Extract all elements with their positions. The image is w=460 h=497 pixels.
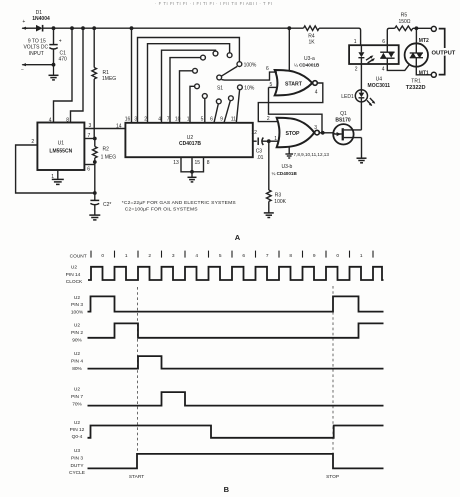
node START dashed line: [137, 287, 139, 453]
svg-text:9: 9: [313, 253, 316, 259]
output bracket: [431, 29, 456, 75]
ground (C2): [89, 215, 100, 220]
svg-text:12: 12: [251, 130, 257, 136]
op-amp U3-b NOR gate STOP: [277, 118, 320, 147]
svg-text:14: 14: [116, 123, 122, 129]
resistor R3: [266, 141, 286, 212]
wire S1 pivot to START gate pin 6: [222, 72, 278, 80]
LED1 emission arrows: [367, 98, 375, 106]
svg-text:6: 6: [87, 166, 90, 172]
wire TR1 gate to U4 pin 4: [387, 64, 410, 71]
svg-text:3: 3: [314, 125, 317, 131]
wire U2 pin14 clock waveform: [66, 265, 384, 286]
svg-text:U2: U2: [74, 295, 80, 301]
diode D1: [32, 10, 50, 31]
svg-text:100%: 100%: [244, 62, 257, 68]
output terminal top: [431, 26, 436, 31]
svg-text:4: 4: [382, 67, 385, 73]
svg-text:9: 9: [220, 117, 223, 123]
svg-text:R3: R3: [275, 192, 282, 198]
top supply rail: [43, 27, 304, 29]
svg-text:150Ω: 150Ω: [398, 19, 410, 25]
svg-text:1: 1: [125, 253, 128, 259]
svg-text:U3-b: U3-b: [282, 164, 293, 170]
svg-text:80%: 80%: [72, 366, 82, 372]
svg-text:0: 0: [336, 253, 339, 259]
svg-text:U3: U3: [74, 448, 80, 454]
svg-text:2: 2: [355, 67, 358, 73]
pin 3 wire to U2 pin 14: [84, 123, 125, 129]
svg-text:R1: R1: [103, 70, 110, 76]
wire U4 pin6 to R5: [387, 28, 395, 45]
svg-text:OUTPUT: OUTPUT: [432, 51, 456, 57]
svg-text:B: B: [224, 485, 230, 494]
op-amp U3-a NOR gate START: [275, 70, 318, 95]
svg-text:1: 1: [360, 253, 363, 259]
svg-text:2: 2: [148, 253, 151, 259]
IC U2 counter box: [125, 123, 252, 157]
svg-text:1N4004: 1N4004: [32, 16, 50, 22]
svg-text:STOP: STOP: [285, 131, 300, 137]
wire rail to U3-a top: [288, 28, 290, 70]
svg-text:4: 4: [195, 253, 198, 259]
svg-text:C2=100µF FOR OIL SYSTEMS: C2=100µF FOR OIL SYSTEMS: [125, 207, 198, 213]
switch S1 pivot and arm: [217, 66, 237, 91]
svg-text:VOLTS DC: VOLTS DC: [23, 45, 48, 51]
resistor R1: [92, 28, 116, 138]
rail after R4 to U4 pin 1: [319, 28, 361, 45]
svg-text:PIN 3: PIN 3: [71, 302, 83, 308]
ground (R3): [264, 213, 274, 218]
wire U2 pin4 80% waveform: [71, 351, 384, 372]
wire pin 16 to rail: [131, 28, 133, 123]
svg-text:8: 8: [66, 117, 69, 123]
plus input terminal: [22, 19, 28, 30]
svg-text:CD4017B: CD4017B: [179, 141, 201, 147]
svg-text:R4: R4: [308, 34, 315, 40]
wire + rail to diode: [22, 27, 36, 29]
wire U2 pin7 70% waveform: [71, 387, 384, 408]
svg-text:*C2=22µF FOR GAS AND ELECTRIC: *C2=22µF FOR GAS AND ELECTRIC SYSTEMS: [122, 200, 237, 206]
cross wire STOP output to START pin 5: [269, 87, 323, 132]
U3-a reference labels: [294, 56, 320, 68]
faint cropped header text: [155, 1, 273, 6]
wire pin 7 to 70% contact: [170, 58, 200, 123]
svg-text:U2: U2: [74, 420, 80, 426]
pin 1 wire + ground: [51, 170, 64, 184]
TR1 labels: [406, 71, 429, 91]
svg-text:U2: U2: [71, 265, 77, 271]
svg-text:7: 7: [88, 133, 91, 139]
svg-text:8: 8: [207, 160, 210, 166]
svg-text:MOC3011: MOC3011: [368, 83, 391, 89]
svg-text:7,8,9,10,11,12,13: 7,8,9,10,11,12,13: [294, 152, 330, 157]
minus input terminal: [21, 63, 55, 73]
svg-text:15: 15: [195, 160, 201, 166]
svg-text:0: 0: [101, 253, 104, 259]
svg-text:PIN 4: PIN 4: [71, 358, 83, 364]
svg-text:100%: 100%: [71, 310, 84, 316]
svg-text:U2: U2: [74, 351, 80, 357]
svg-text:1MEG: 1MEG: [102, 76, 116, 82]
svg-text:PIN 14: PIN 14: [66, 272, 81, 278]
svg-text:START: START: [285, 81, 303, 87]
wire U3 pin3 duty cycle waveform: [69, 448, 384, 476]
svg-text:5: 5: [270, 82, 273, 88]
U4 internal arrows: [366, 55, 375, 63]
pin 5 stub: [269, 82, 278, 88]
svg-text:U2: U2: [74, 387, 80, 393]
svg-text:PIN 12: PIN 12: [70, 427, 85, 433]
node STOP dashed line: [332, 286, 334, 453]
svg-text:4: 4: [49, 117, 52, 123]
svg-text:2: 2: [144, 117, 147, 123]
node C2 junction: [93, 191, 97, 195]
svg-text:6: 6: [382, 39, 385, 45]
svg-text:PIN 2: PIN 2: [71, 330, 83, 336]
svg-text:6: 6: [210, 117, 213, 123]
svg-text:6: 6: [242, 253, 245, 259]
svg-text:1 MEG: 1 MEG: [101, 155, 117, 161]
svg-text:U2: U2: [74, 323, 80, 329]
svg-text:R2: R2: [103, 146, 110, 152]
svg-text:¼ CD4001B: ¼ CD4001B: [272, 171, 298, 176]
svg-text:90%: 90%: [72, 337, 82, 343]
pin 2 wire: [16, 139, 95, 193]
svg-text:11: 11: [231, 117, 236, 123]
svg-text:6: 6: [266, 66, 269, 72]
svg-text:7: 7: [266, 253, 269, 259]
svg-text:470: 470: [59, 57, 68, 63]
svg-text:PIN 3: PIN 3: [71, 456, 83, 462]
svg-text:+: +: [59, 39, 62, 45]
svg-text:3: 3: [89, 123, 92, 129]
op-amp U1 timer box: [37, 123, 84, 171]
svg-text:16: 16: [125, 117, 131, 123]
svg-text:8: 8: [289, 253, 292, 259]
svg-text:MT1: MT1: [419, 71, 429, 77]
pin 6 wire: [84, 165, 94, 173]
wire rail to U1 pin 8: [71, 28, 84, 122]
svg-text:1: 1: [354, 39, 357, 45]
svg-text:C1: C1: [60, 50, 67, 56]
svg-text:· F TI FI TI FI · I FI TI FI ·: · F TI FI TI FI · I FI TI FI · I FII TII…: [155, 1, 273, 6]
svg-text:C3: C3: [256, 148, 263, 154]
wire Q1 source to ground: [357, 138, 367, 163]
U3-b reference labels: [272, 164, 298, 176]
resistor R5: [395, 13, 413, 31]
node: rail junction dots: [52, 26, 292, 30]
svg-text:−: −: [21, 67, 24, 73]
wire U2 pin3 100% waveform: [71, 295, 384, 316]
input voltage label: [23, 38, 48, 56]
svg-text:+: +: [22, 19, 25, 25]
transistor Q1 MOSFET: [333, 111, 361, 145]
rotary switch S1 contacts: [193, 51, 243, 104]
svg-text:PIN 7: PIN 7: [71, 394, 83, 400]
svg-text:COUNT: COUNT: [70, 253, 87, 259]
wire U2 pin2 90% waveform: [71, 323, 384, 344]
svg-text:.01: .01: [257, 155, 264, 161]
resistor R2: [93, 139, 117, 194]
wire pin 3 to 100% contact: [138, 38, 240, 123]
output terminal bottom: [431, 72, 436, 77]
ground (C1): [49, 65, 59, 80]
svg-text:S1: S1: [217, 85, 223, 91]
svg-text:CYCLE: CYCLE: [69, 470, 85, 476]
U4 internal LED: [358, 45, 364, 64]
svg-text:2: 2: [267, 116, 270, 122]
wire U4 pin2 to LED1 to Q1 drain: [360, 64, 362, 130]
wire pin 2 to 90% contact: [148, 44, 230, 123]
C2 note text: [122, 200, 237, 213]
svg-text:INPUT: INPUT: [29, 51, 44, 57]
svg-text:CLOCK: CLOCK: [66, 279, 83, 285]
svg-text:Q0-4: Q0-4: [72, 434, 83, 440]
capacitor C1: [49, 28, 67, 64]
svg-text:STOP: STOP: [326, 474, 339, 480]
svg-text:1K: 1K: [308, 40, 315, 46]
svg-text:10%: 10%: [244, 86, 255, 92]
pin 7 wire: [84, 133, 96, 140]
capacitor C2: [90, 193, 111, 215]
svg-text:70%: 70%: [72, 401, 82, 407]
wire pin 9 contact: [224, 101, 230, 123]
svg-text:13: 13: [173, 160, 179, 166]
wire rail to U1 pin 4: [54, 28, 73, 122]
svg-text:U1: U1: [58, 140, 65, 146]
svg-text:R5: R5: [401, 13, 408, 19]
svg-text:T2322D: T2322D: [406, 85, 426, 91]
node COUNT header row: [70, 251, 373, 260]
wire pin 4 to 80% contact: [162, 50, 216, 123]
wire pin 5 contact: [204, 99, 206, 123]
wire pin 10 to contact: [180, 71, 193, 123]
svg-text:1: 1: [274, 136, 277, 142]
LED1: [341, 90, 367, 102]
svg-text:9 TO 15: 9 TO 15: [28, 38, 46, 44]
wire U2 pin12 Q0-4 waveform: [70, 420, 384, 440]
wire STOP output to Q1 gate: [319, 131, 333, 135]
wire MT2: [416, 28, 429, 44]
pin 4 output wire to STOP input 2: [258, 83, 323, 122]
U2 top pin labels: [125, 117, 236, 123]
svg-text:3: 3: [172, 253, 175, 259]
wire pin 6 contact: [214, 104, 218, 123]
svg-text:A: A: [235, 233, 241, 242]
svg-text:U4: U4: [376, 76, 383, 82]
wire R5 to output terminal: [413, 26, 431, 30]
U4 pin labels: [354, 39, 386, 73]
U4 internal triac: [380, 45, 394, 64]
svg-text:LM555CN: LM555CN: [49, 149, 72, 155]
svg-text:DUTY: DUTY: [70, 463, 84, 469]
resistor R4 (in rail): [304, 26, 320, 46]
wire pin 11 to 10% contact: [236, 90, 239, 123]
svg-text:LED1: LED1: [341, 94, 354, 100]
svg-text:¼ CD4001B: ¼ CD4001B: [294, 63, 320, 68]
svg-text:Q1: Q1: [340, 111, 347, 117]
svg-text:2: 2: [31, 139, 34, 145]
svg-text:4: 4: [315, 90, 318, 96]
svg-text:4: 4: [158, 117, 161, 123]
triac TR1: [405, 43, 428, 66]
svg-text:C2*: C2*: [103, 202, 111, 208]
svg-text:U3-a: U3-a: [304, 56, 315, 62]
svg-text:TR1: TR1: [411, 78, 421, 84]
svg-text:5: 5: [219, 253, 222, 259]
pin 12 wire from U2: [251, 130, 257, 141]
svg-text:100K: 100K: [274, 199, 286, 205]
svg-text:BS170: BS170: [335, 117, 351, 123]
wire pin 1 to contact: [190, 86, 194, 123]
svg-text:START: START: [129, 474, 144, 480]
node STOP pin 1 junction: [267, 136, 279, 143]
svg-text:5: 5: [201, 117, 204, 123]
wire MT1 to output terminal bottom: [416, 67, 431, 75]
optocoupler U4 box: [349, 45, 399, 89]
U2 bottom pins 13 15 8 to ground: [173, 157, 210, 182]
capacitor C3: [256, 138, 269, 161]
ground below STOP gate (pins 7,8,9,10,11,12,13): [285, 147, 329, 158]
